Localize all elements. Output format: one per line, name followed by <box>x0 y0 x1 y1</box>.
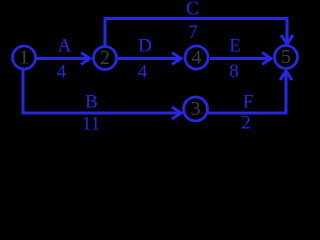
svg-text:C: C <box>186 0 199 20</box>
svg-text:2: 2 <box>241 113 251 134</box>
svg-text:11: 11 <box>82 114 100 135</box>
svg-text:8: 8 <box>229 61 239 82</box>
svg-text:A: A <box>58 36 72 57</box>
svg-text:2: 2 <box>100 47 110 69</box>
svg-text:4: 4 <box>192 47 202 69</box>
svg-text:1: 1 <box>19 47 29 69</box>
svg-text:4: 4 <box>57 62 67 83</box>
svg-text:B: B <box>85 92 98 113</box>
svg-text:D: D <box>138 36 152 57</box>
svg-text:3: 3 <box>191 98 201 120</box>
svg-text:7: 7 <box>188 22 198 43</box>
svg-text:4: 4 <box>138 62 148 83</box>
svg-text:5: 5 <box>281 46 291 68</box>
svg-text:E: E <box>229 36 241 57</box>
svg-text:F: F <box>243 92 254 113</box>
